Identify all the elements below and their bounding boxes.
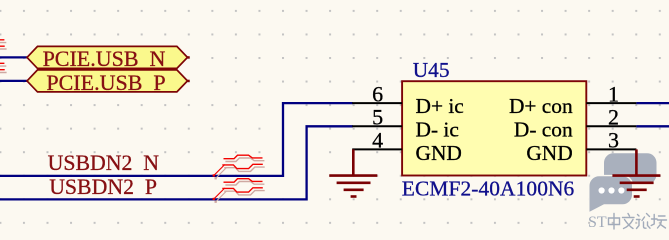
pin 1 (D+ con) [586,102,636,104]
pin 6 (D+ ic) [352,102,402,104]
port PCIE.USB_P [27,70,190,95]
front bubble [590,176,633,211]
svg-text:U45: U45 [413,58,450,82]
svg-text:6: 6 [372,81,383,106]
clipped diff pair marker at left edge wire2 (shadow) [0,63,7,84]
diff pair marker on USBDN2_N [213,155,263,176]
pin 5 (D- ic) [352,125,402,127]
svg-text:3: 3 [608,128,619,153]
back bubble [604,153,657,184]
svg-text:2: 2 [608,105,619,130]
front bubble halo [590,176,633,211]
pin 4 (GND) [352,148,402,150]
svg-text:D- con: D- con [514,117,573,141]
glyph 中 [609,214,620,230]
svg-text:PCIE.USB P: PCIE.USB P [46,70,165,95]
svg-text:USBDN2 P: USBDN2 P [49,175,157,199]
port PCIE.USB_N [27,46,190,71]
clipped diff pair marker at left edge wire2 [0,61,5,82]
glyph 文 [623,214,635,229]
svg-text:D+ con: D+ con [509,94,573,118]
clipped diff pair marker at left edge wire1 (shadow) [0,40,7,61]
wire USBDN2_N [0,103,353,176]
glyph 坛 [651,215,666,229]
svg-text:PCIE.USB N: PCIE.USB N [43,46,166,71]
watermark logo (two chat bubbles) [590,153,657,212]
svg-text:D- ic: D- ic [416,117,459,141]
wire from pin 1 to sheet edge [636,102,669,104]
diff pair marker on USBDN2_N (shadow) [215,158,265,179]
pin 3 (GND) [586,148,636,150]
component U45 body [402,81,586,175]
svg-text:1: 1 [608,81,619,106]
ground at pin 3 [612,149,660,196]
svg-text:4: 4 [372,128,383,153]
wire from pin 2 to sheet edge [636,125,669,127]
diff pair marker on USBDN2_P [213,179,263,200]
svg-text:GND: GND [526,141,572,165]
diff pair marker on USBDN2_P (shadow) [215,182,265,203]
svg-text:USBDN2 N: USBDN2 N [48,151,160,175]
svg-text:GND: GND [416,141,462,165]
wire PCIE.USB_N stub [0,56,27,58]
svg-text:ST: ST [588,214,607,231]
ground at pin 4 [329,149,377,196]
glyph 论 [637,214,651,229]
svg-text:ECMF2-40A100N6: ECMF2-40A100N6 [402,176,575,200]
clipped diff pair marker at left edge wire1 [0,37,5,58]
svg-text:D+ ic: D+ ic [416,94,464,118]
pin 2 (D- con) [586,125,636,127]
watermark text [588,214,667,232]
wire USBDN2_P [0,126,353,199]
wire PCIE.USB_P stub [0,80,27,82]
svg-text:5: 5 [372,105,383,130]
